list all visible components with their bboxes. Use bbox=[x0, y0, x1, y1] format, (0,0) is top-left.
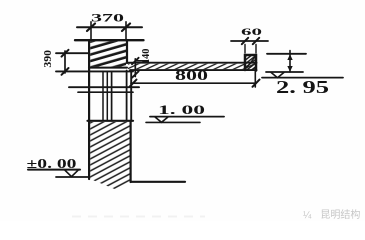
svg-text:370: 370 bbox=[91, 10, 124, 24]
svg-text:60: 60 bbox=[241, 28, 263, 38]
svg-text:2. 95: 2. 95 bbox=[276, 77, 329, 97]
svg-text:800: 800 bbox=[175, 68, 208, 84]
svg-text:390: 390 bbox=[42, 49, 54, 67]
svg-text:140: 140 bbox=[141, 49, 152, 64]
svg-text:1. 00: 1. 00 bbox=[158, 102, 205, 117]
svg-text:±0. 00: ±0. 00 bbox=[27, 156, 77, 171]
